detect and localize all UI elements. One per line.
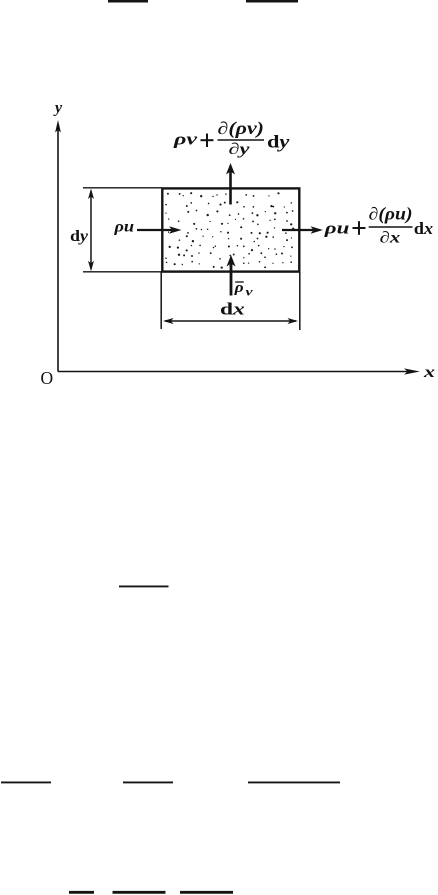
stray fraction bar mid-page	[119, 585, 169, 587]
control volume rectangle	[162, 188, 299, 271]
stray fraction bar row2 middle	[123, 781, 173, 783]
svg-text:dx: dx	[414, 219, 434, 238]
svg-text:∂(ρv): ∂(ρv)	[218, 118, 265, 138]
right fraction bar	[369, 226, 413, 228]
top fraction bar	[218, 139, 265, 141]
svg-text:O: O	[41, 368, 54, 388]
rho-v outflow arrow (top)	[229, 170, 232, 205]
stray fraction bar fragment top-right	[246, 0, 298, 3]
rho-u inflow arrow	[137, 229, 176, 231]
svg-text:ρu: ρu	[323, 218, 349, 237]
stray fraction bar row2 right	[248, 781, 340, 783]
rho-v inflow arrow (bottom)	[230, 262, 233, 296]
y-axis	[57, 128, 59, 372]
stray fraction bar bottom 3	[180, 891, 233, 894]
svg-text:dx: dx	[220, 300, 245, 319]
dy dimension arrow	[90, 191, 92, 269]
dx extension line right	[299, 272, 301, 330]
y-axis arrowhead	[55, 120, 61, 133]
svg-text:ρv: ρv	[173, 129, 198, 148]
svg-text:y: y	[53, 100, 63, 117]
dy extension line bottom	[83, 271, 162, 273]
dx dimension arrow	[165, 320, 296, 322]
svg-text:∂x: ∂x	[380, 230, 401, 247]
x-axis	[58, 371, 410, 373]
stray fraction bar bottom 1	[69, 891, 94, 894]
stipple fill of control volume	[165, 192, 294, 269]
svg-text:dy: dy	[70, 228, 89, 245]
svg-text:ρu: ρu	[113, 218, 134, 235]
dy extension line top	[83, 187, 162, 189]
x-axis arrowhead	[404, 368, 420, 374]
svg-text:v: v	[246, 284, 254, 298]
rho-u outflow arrow	[282, 229, 317, 231]
stray fraction bar bottom 2	[113, 891, 166, 894]
svg-text:∂y: ∂y	[229, 141, 251, 158]
stray fraction bar row2 left	[1, 781, 51, 783]
svg-text:dy: dy	[267, 131, 291, 151]
dx extension line left	[160, 272, 162, 329]
stray fraction bar fragment top-left	[108, 0, 148, 3]
svg-text:∂(ρu): ∂(ρu)	[369, 204, 413, 224]
top label: plus	[201, 134, 214, 148]
right label: plus	[353, 221, 366, 235]
svg-text:x: x	[423, 364, 435, 381]
